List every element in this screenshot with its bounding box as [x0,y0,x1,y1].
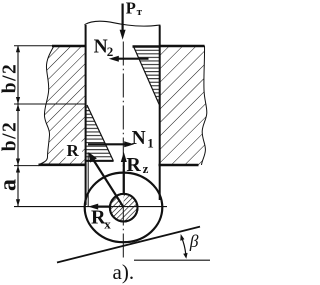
svg-text:b/2: b/2 [0,121,21,152]
svg-text:N: N [94,36,108,57]
svg-text:z: z [143,161,149,176]
svg-text:β: β [189,231,199,251]
svg-text:x: x [104,217,111,232]
svg-text:P: P [126,0,136,18]
svg-text:1: 1 [147,136,154,151]
svg-text:N: N [132,128,146,149]
svg-text:т: т [137,6,143,18]
svg-text:R: R [67,141,80,160]
svg-text:2: 2 [107,44,114,59]
svg-text:a: a [0,179,22,191]
svg-text:R: R [126,154,141,176]
svg-text:а).: а). [113,260,135,284]
svg-text:b/2: b/2 [0,63,21,94]
